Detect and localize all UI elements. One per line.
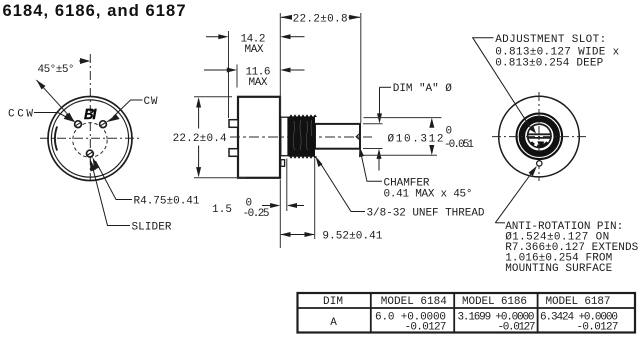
white split in dark ring: [518, 115, 560, 157]
dim 9.52±0.41: [281, 234, 314, 236]
rim seam arc at left: [55, 127, 57, 151]
rear outer circle: [499, 96, 580, 177]
svg-text:3/8-32 UNEF THREAD: 3/8-32 UNEF THREAD: [367, 208, 485, 220]
ext line shaft end: [360, 13, 362, 123]
svg-text:CW: CW: [144, 96, 158, 108]
dim 22.2±0.8: [280, 15, 292, 20]
svg-text:22.2±0.8: 22.2±0.8: [293, 13, 348, 25]
arrowhead on 45deg line at terminal: [66, 113, 75, 123]
svg-text:MODEL 6184: MODEL 6184: [381, 296, 447, 308]
svg-text:1.5: 1.5: [212, 204, 232, 216]
terminal tab upper: [229, 120, 238, 128]
body rectangle: [238, 97, 280, 178]
ext line terminal tips: [228, 31, 230, 118]
dim 14.2 MAX: [206, 36, 225, 38]
svg-text:MODEL 6186: MODEL 6186: [462, 296, 527, 308]
front view horizontal centerline: [40, 137, 141, 139]
anti-rotation pin leader: [495, 171, 533, 223]
terminal CW (upper right): [100, 121, 107, 128]
front view inner rim circle: [51, 100, 128, 177]
terminal pin circle (dashed): [73, 123, 107, 157]
thread OD ext lines: [364, 117, 442, 119]
svg-text:0: 0: [446, 125, 453, 137]
svg-text:R4.75±0.41: R4.75±0.41: [134, 196, 200, 208]
adjustment slot leader: [473, 38, 531, 129]
DIM A bottom arrow: [378, 153, 380, 171]
svg-text:SLIDER: SLIDER: [132, 222, 172, 234]
ext line mounting face lower: [279, 180, 281, 249]
threaded bushing: [288, 114, 317, 158]
svg-text:MODEL 6187: MODEL 6187: [546, 296, 611, 308]
svg-text:A: A: [330, 317, 337, 329]
bushing dark ring: [520, 117, 558, 155]
anti-rotation pin (side): [281, 160, 285, 167]
ext line body left face: [236, 65, 238, 88]
svg-text:ADJUSTMENT SLOT:: ADJUSTMENT SLOT:: [495, 34, 606, 46]
svg-text:-0.0127: -0.0127: [498, 321, 536, 333]
svg-text:Ø10.312: Ø10.312: [388, 134, 444, 146]
BI logo: [84, 109, 97, 120]
rear view vertical centerline: [538, 92, 540, 181]
side view centerline: [230, 136, 372, 138]
svg-text:DIM: DIM: [323, 296, 343, 308]
dia 10.312 arrows: [429, 118, 434, 128]
terminal CCW (upper left): [75, 121, 82, 128]
inner shaft circle: [528, 124, 551, 147]
dim 11.6 MAX: [204, 69, 233, 71]
svg-text:45°±5°: 45°±5°: [38, 64, 75, 76]
shaft top edge extension stub: [363, 123, 383, 125]
rotor tab wedge: [538, 141, 545, 146]
svg-text:-0.0127: -0.0127: [405, 321, 447, 333]
45deg angle arrow at vertical centerline: [80, 58, 90, 64]
ext line mounting face: [279, 13, 281, 116]
rotor bottom arc right: [537, 142, 547, 146]
svg-text:-0.25: -0.25: [243, 208, 270, 220]
svg-text:6184, 6186, and 6187: 6184, 6186, and 6187: [3, 2, 186, 20]
front view vertical centerline: [89, 54, 91, 181]
slot lower line: [528, 137, 551, 139]
svg-text:-0.051: -0.051: [444, 139, 474, 151]
svg-text:22.2±0.4: 22.2±0.4: [173, 133, 227, 145]
dim 22.2±0.4: [198, 99, 200, 129]
svg-text:CCW: CCW: [8, 109, 33, 121]
svg-text:MAX: MAX: [245, 44, 264, 56]
bushing collar: [281, 117, 288, 156]
shaft bottom edge extension stub: [363, 148, 383, 150]
svg-text:0.41 MAX x 45°: 0.41 MAX x 45°: [384, 189, 473, 201]
arrowhead at upper end of 45deg line: [37, 80, 46, 90]
svg-text:0.813±0.254 DEEP: 0.813±0.254 DEEP: [495, 57, 603, 69]
front view outer circle: [48, 97, 132, 181]
slot upper line: [528, 133, 551, 135]
rotor bottom arc left: [531, 142, 534, 145]
terminal tab lower: [229, 149, 238, 157]
shaft: [315, 124, 360, 149]
dim 22.2±0.4 ext lines: [194, 96, 232, 98]
ext line thread end: [314, 159, 316, 240]
svg-text:DIM "A" Ø: DIM "A" Ø: [393, 83, 452, 95]
svg-text:MAX: MAX: [249, 77, 268, 89]
anti-rotation pin circle: [537, 161, 542, 166]
svg-text:9.52±0.41: 9.52±0.41: [322, 231, 382, 243]
ext line thread start: [286, 159, 288, 212]
svg-text:MOUNTING SURFACE: MOUNTING SURFACE: [505, 263, 612, 275]
svg-text:-0.0127: -0.0127: [577, 321, 619, 333]
rear view horizontal centerline: [492, 136, 586, 138]
slot notch at shaft end: [356, 133, 360, 140]
front view 45deg reference line: [37, 80, 75, 121]
terminal SLIDER (bottom): [87, 150, 94, 157]
